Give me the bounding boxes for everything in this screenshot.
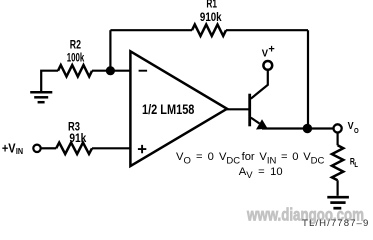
op-amp U1 triangle xyxy=(130,51,227,166)
resistor R2 xyxy=(58,65,92,76)
wire feedback top horizontal xyxy=(110,29,308,31)
wire op-amp output to transistor base xyxy=(226,108,249,110)
svg-text:AV = 10: AV = 10 xyxy=(239,166,283,181)
wire feedback left vertical xyxy=(109,30,111,70)
node junction at inverting input xyxy=(106,66,115,75)
wire RL to ground xyxy=(337,180,339,196)
op-amp non-inverting input marker xyxy=(138,145,146,153)
terminal V+ xyxy=(263,61,272,70)
svg-text:V: V xyxy=(262,48,268,60)
input terminal +VIN xyxy=(33,145,40,152)
svg-text:TL/H/7787–9: TL/H/7787–9 xyxy=(302,218,368,229)
output terminal VO xyxy=(334,124,342,132)
resistor R1 xyxy=(192,25,226,36)
node output junction xyxy=(303,124,312,133)
wire emitter to output terminal xyxy=(262,127,333,129)
wire R2 to op-amp inverting input xyxy=(92,70,130,72)
svg-text:91k: 91k xyxy=(69,131,86,145)
svg-text:1/2 LM158: 1/2 LM158 xyxy=(142,102,194,118)
op-amp inverting input marker xyxy=(139,70,148,72)
svg-text:VO = 0 VDC: VO = 0 VDC xyxy=(176,151,240,166)
svg-text:O: O xyxy=(354,126,359,135)
svg-text:910k: 910k xyxy=(200,10,222,24)
svg-text:+: + xyxy=(268,44,274,56)
ground right xyxy=(327,197,349,208)
ground left xyxy=(30,92,52,102)
transistor Q1 xyxy=(250,70,268,130)
wire R2 left lead to ground xyxy=(41,71,58,91)
svg-text:100k: 100k xyxy=(67,50,85,64)
svg-text:+V: +V xyxy=(2,141,16,156)
resistor RL xyxy=(332,145,343,180)
wire output terminal to RL xyxy=(337,133,339,146)
wire feedback right vertical xyxy=(307,30,309,128)
resistor R3 xyxy=(56,143,92,154)
svg-text:for VIN = 0 VDC: for VIN = 0 VDC xyxy=(242,151,325,166)
wire input to R3 xyxy=(41,147,57,149)
wire R3 to op-amp non-inverting input xyxy=(92,147,130,149)
svg-text:L: L xyxy=(354,160,358,169)
svg-text:IN: IN xyxy=(16,146,23,156)
svg-text:R1: R1 xyxy=(206,0,217,11)
